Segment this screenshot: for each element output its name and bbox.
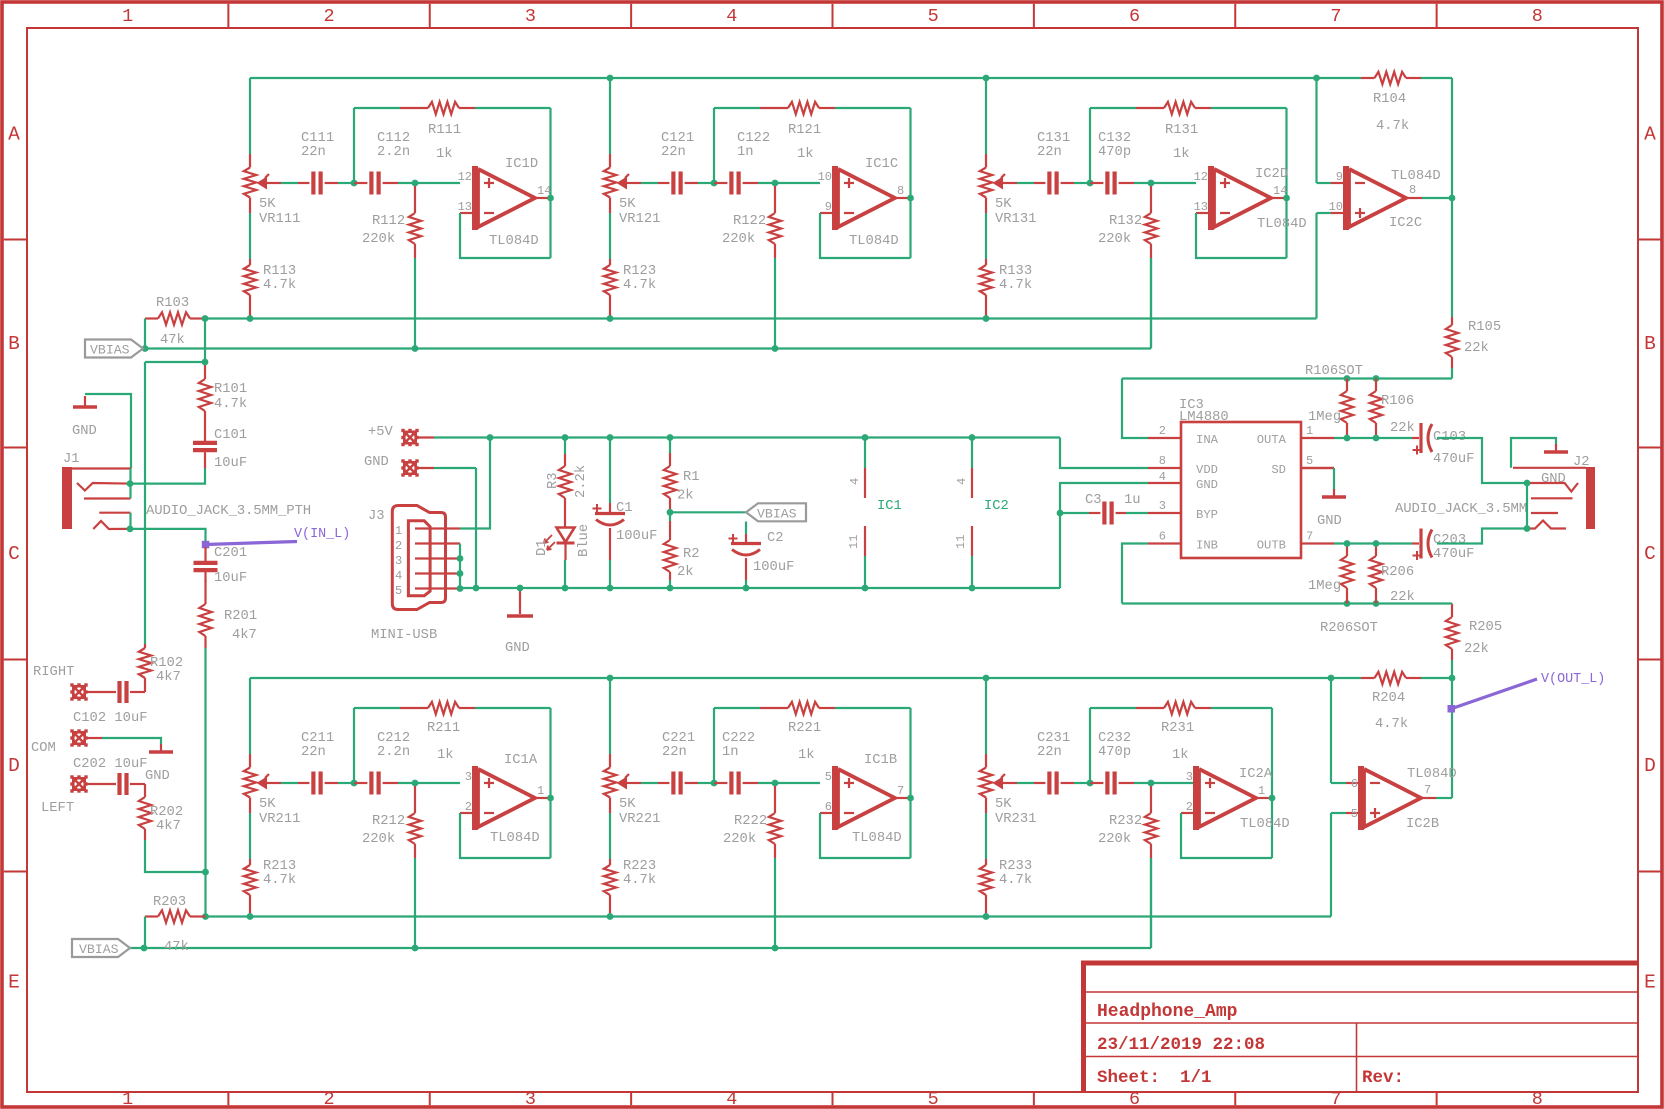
wire GND rail to IC3 GND [1060,483,1148,588]
svg-text:R102: R102 [150,656,183,671]
junction node B [1148,180,1155,187]
svg-text:22k: 22k [1390,589,1415,605]
wire R201 to bottom stages [204,648,206,872]
capacitor C3 [1060,512,1089,514]
wire OUTA net [1334,437,1412,439]
feedback wire up from node A [353,108,355,183]
wire R203 net line [205,915,1331,917]
capacitor C103 [1412,437,1419,439]
svg-text:J3: J3 [368,509,385,524]
svg-text:C231: C231 [1037,731,1070,746]
svg-text:VR121: VR121 [619,212,660,227]
wire INB net [1122,544,1148,604]
svg-text:C203: C203 [1433,533,1466,548]
svg-text:220k: 220k [723,831,756,847]
J2 ring contact [1527,521,1566,529]
svg-text:22n: 22n [1037,745,1062,760]
svg-text:IC1A: IC1A [504,753,538,768]
svg-text:2.2n: 2.2n [377,145,410,160]
svg-text:R204: R204 [1372,691,1405,706]
junction +5V J3 [487,434,494,441]
resistor R111 [400,107,428,109]
junction R213 bottom [247,913,254,920]
junction node A [1087,780,1094,787]
svg-text:23/11/2019 22:08: 23/11/2019 22:08 [1097,1035,1265,1055]
wire inverting feedback loop [460,813,551,858]
junction VBIAS-R103 [142,345,149,352]
svg-text:4.7k: 4.7k [999,277,1032,293]
junction R103 right [202,315,209,322]
svg-text:TL084D: TL084D [852,831,902,846]
svg-text:2k: 2k [677,564,694,580]
svg-text:R132: R132 [1109,214,1142,229]
wire R204 to IC2B node [1421,677,1452,679]
svg-text:1: 1 [122,6,133,27]
connector J2 body [1586,467,1595,529]
svg-text:LEFT: LEFT [41,801,74,816]
svg-text:1Meg: 1Meg [1308,410,1341,425]
op-amp IC1A [460,812,475,814]
junction D1 bottom [562,585,569,592]
svg-text:VR111: VR111 [259,212,300,227]
resistor R232 [1150,786,1152,813]
svg-text:C111: C111 [301,131,334,146]
op-amp output wire [535,797,548,799]
wire COM to ground [86,737,102,739]
svg-text:11: 11 [954,535,968,549]
wire D1 to GND rail [564,560,566,588]
svg-text:220k: 220k [1098,231,1131,247]
resistor R206SOT 1Meg [1346,544,1348,557]
svg-text:IC1D: IC1D [505,157,538,172]
wire node A C221-C222 [698,782,714,784]
resistor R123 [609,259,611,265]
connector J1 body [62,467,72,529]
LED D1 [557,528,575,543]
resistor R106SOT 1Meg [1346,379,1348,392]
svg-text:Headphone_Amp: Headphone_Amp [1097,1002,1237,1022]
junction top rail VR131 [983,75,990,82]
svg-text:R202: R202 [150,805,183,820]
capacitor C122 [714,182,727,184]
op-amp IC2D [1196,212,1211,214]
svg-text:LM4880: LM4880 [1179,410,1229,425]
wire node B to op-amp + [415,782,460,784]
J3 pin 5 [415,587,460,589]
resistor R122 [774,186,776,213]
svg-text:C131: C131 [1037,131,1070,146]
junction GND drop [473,585,480,592]
resistor R101 [204,362,206,379]
junction node A [711,180,718,187]
J3 pin 3 [415,557,460,559]
wire VR131 top rail tap [985,78,987,154]
svg-text:3: 3 [1159,499,1166,513]
svg-text:7: 7 [1330,6,1341,27]
svg-text:5K: 5K [259,197,276,212]
svg-text:5: 5 [1351,807,1358,821]
svg-text:4: 4 [726,1089,737,1109]
junction R203 right [202,913,209,920]
svg-text:C112: C112 [377,131,410,146]
junction op-amp output [907,195,914,202]
title block row lines [1085,991,1638,993]
junction GND symbol [517,585,524,592]
junction R112 bottom [412,345,419,352]
svg-text:1k: 1k [436,146,453,162]
capacitor C1 [609,438,611,504]
svg-text:V(IN_L): V(IN_L) [294,527,350,542]
svg-text:R206SOT: R206SOT [1320,621,1378,636]
svg-text:TL084D: TL084D [490,831,540,846]
svg-text:4: 4 [726,6,737,27]
svg-text:R2: R2 [683,547,700,562]
J1 ring contact [93,521,130,529]
op-amp output wire [535,197,548,199]
resistor R222 [774,786,776,813]
svg-text:1: 1 [395,524,402,538]
wire INA net [1122,379,1148,439]
svg-text:R104: R104 [1373,92,1406,107]
svg-text:IC1B: IC1B [864,753,897,768]
resistor R112 [414,186,416,213]
resistor R121 [760,107,788,109]
IC3 pin 6 INB [1148,542,1181,544]
junction OUTB-R206SOT [1344,540,1351,547]
wire R132 drop to VBIAS rail [1150,258,1152,349]
potentiometer VR211 [249,754,251,768]
svg-text:RIGHT: RIGHT [33,665,74,680]
wire VR121 bottom [609,213,611,259]
svg-text:10uF: 10uF [214,571,247,586]
resistor R211 [400,707,428,709]
resistor R231 [1136,707,1164,709]
svg-text:A: A [1644,123,1656,145]
svg-text:TL084D: TL084D [1391,169,1441,184]
resistor R131 [1136,107,1164,109]
IC2 power pin 11 [971,526,973,556]
svg-text:6: 6 [1159,530,1166,544]
J1 sleeve contact [72,467,131,469]
svg-text:5: 5 [825,770,832,784]
svg-text:A: A [8,123,20,145]
resistor R203 [145,915,158,917]
potentiometer VR231 [985,754,987,768]
ground symbol USB [519,588,521,614]
wire +5V to VDD [1060,438,1148,469]
J1 contact 4 [99,512,130,514]
svg-text:R222: R222 [734,814,767,829]
wire node B [758,782,775,784]
junction op-amp output [547,795,554,802]
svg-text:4: 4 [848,478,862,485]
wire R101 node to left riser [145,361,205,363]
capacitor C212 [354,782,367,784]
svg-text:4k7: 4k7 [156,669,181,685]
svg-text:C121: C121 [661,131,694,146]
resistor R113 [249,259,251,265]
ground at SD pin [1333,489,1335,497]
svg-text:10: 10 [818,170,832,184]
svg-text:14: 14 [1273,184,1287,198]
junction J3 pin4 [457,570,464,577]
wire R104 to IC2C output [1421,77,1452,79]
wire C203 to jack [1437,529,1527,544]
wire IC2B pin5 stub [1331,812,1346,814]
resistor R105 [1451,198,1453,317]
svg-text:GND: GND [145,769,170,784]
svg-text:R231: R231 [1161,721,1194,736]
junction IC2 pwr top [969,434,976,441]
junction C1 top [607,434,614,441]
capacitor C221 [658,782,669,784]
wire VR121 wiper [627,182,641,184]
wire R101 top [204,319,206,363]
resistor R132 [1150,186,1152,213]
junction OUTA-R106 [1373,435,1380,442]
svg-text:R112: R112 [372,214,405,229]
svg-text:9: 9 [825,200,832,214]
wire node B to op-amp + [415,182,460,184]
capacitor C102 [86,691,116,693]
resistor R1 [669,438,671,454]
svg-text:TL084D: TL084D [1407,767,1457,782]
svg-text:4.7k: 4.7k [1375,716,1408,732]
svg-text:VBIAS: VBIAS [90,343,130,358]
junction J3 pin3 [457,555,464,562]
capacitor C111 [298,182,309,184]
svg-text:220k: 220k [722,231,755,247]
svg-text:VDD: VDD [1196,463,1218,477]
capacitor C211 [298,782,309,784]
junction R223 bottom [607,913,614,920]
svg-text:5: 5 [928,6,939,27]
svg-text:220k: 220k [1098,831,1131,847]
feedback wire up from node A [1089,708,1091,783]
IC2 power pin 4 [971,438,973,469]
wire R202 to tie [145,840,206,872]
wire R122 to VBIAS rail [774,258,776,349]
svg-text:C212: C212 [377,731,410,746]
svg-text:VR131: VR131 [995,212,1036,227]
probe V(IN_L) [206,542,298,545]
svg-text:4.7k: 4.7k [1376,118,1409,134]
svg-text:VBIAS: VBIAS [757,506,797,521]
junction C2 bottom [743,585,750,592]
flag VBIAS middle [746,503,806,521]
capacitor C202 [86,783,116,785]
svg-text:12: 12 [1194,170,1208,184]
svg-text:1: 1 [1306,424,1313,438]
svg-text:22n: 22n [1037,145,1062,160]
svg-text:22n: 22n [661,145,686,160]
svg-text:D: D [1644,755,1656,777]
svg-text:IC2: IC2 [984,499,1009,514]
svg-text:7: 7 [1424,783,1431,797]
svg-text:R106: R106 [1381,394,1414,409]
wire R212 to VBIAS rail [414,858,416,948]
wire J1 ring to V(IN_L) [130,529,206,541]
svg-text:1Meg: 1Meg [1308,579,1341,594]
wire inverting feedback loop [460,213,551,258]
test pad COM [72,731,86,745]
wire R222 to VBIAS rail [774,858,776,948]
svg-text:C132: C132 [1098,131,1131,146]
svg-text:5: 5 [395,584,402,598]
junction R122 bottom [772,345,779,352]
svg-text:VR211: VR211 [259,812,300,827]
svg-text:220k: 220k [362,231,395,247]
svg-text:R113: R113 [263,264,296,279]
wire inverting feedback loop [820,213,911,258]
wire J1 sleeve-mid link [129,469,131,499]
junction R106SOT top [1344,375,1351,382]
junction J3 pin5 [457,585,464,592]
svg-text:5K: 5K [259,797,276,812]
svg-text:IC1C: IC1C [865,157,898,172]
svg-text:11: 11 [847,535,861,549]
wire VBIAS rail bottom [130,947,1151,949]
svg-text:R103: R103 [156,296,189,311]
test pad LEFT [72,777,86,791]
wire IC2C output [1406,197,1422,199]
test pad RIGHT [72,685,86,699]
frame row ticks right [1638,239,1663,241]
svg-text:R206: R206 [1381,565,1414,580]
svg-text:22k: 22k [1464,641,1489,657]
svg-text:5K: 5K [995,197,1012,212]
wire VR121 top rail tap [609,78,611,154]
op-amp IC2B [1346,782,1361,784]
wire J3 pin1 to +5V [460,438,490,529]
svg-text:5K: 5K [619,197,636,212]
wire R103 net line [205,317,1317,319]
junction node B [772,180,779,187]
feedback wire to output [1211,707,1272,709]
svg-text:C: C [1644,543,1656,565]
svg-text:AUDIO_JACK_3.5MM_PTH: AUDIO_JACK_3.5MM_PTH [146,503,311,519]
IC3 pin 4 GND [1148,482,1181,484]
potentiometer VR111 [249,154,251,168]
svg-text:R205: R205 [1469,620,1502,635]
capacitor C2 [745,522,747,535]
IC3 pin 1 OUTA [1301,437,1334,439]
svg-text:R122: R122 [733,214,766,229]
wire SD to ground [1301,467,1334,469]
feedback wire up from node A [713,108,715,183]
op-amp IC2A [1181,812,1196,814]
svg-text:R123: R123 [623,264,656,279]
resistor R133 [985,259,987,265]
svg-text:C232: C232 [1098,731,1131,746]
svg-text:1: 1 [122,1089,133,1109]
svg-text:C2: C2 [767,531,784,546]
wire node A C121-C122 [698,182,714,184]
svg-text:4: 4 [955,478,969,485]
junction R2 bottom [667,585,674,592]
svg-text:Rev:: Rev: [1362,1068,1404,1088]
svg-text:1u: 1u [1124,493,1141,508]
wire VR211 wiper [267,782,281,784]
svg-text:J1: J1 [63,452,80,467]
wire VR231 bottom [985,813,987,859]
svg-text:R105: R105 [1468,320,1501,335]
op-amp IC1D [460,212,475,214]
svg-text:7: 7 [897,784,904,798]
svg-text:1n: 1n [737,145,754,160]
svg-text:R201: R201 [224,609,257,624]
wire node B [398,182,415,184]
capacitor C121 [658,182,669,184]
wire R132 to VBIAS rail [1150,258,1152,349]
svg-text:7: 7 [1306,530,1313,544]
J2 sleeve contact [1513,467,1586,469]
J2 tip contact [1527,483,1578,492]
junction IC2 pwr bottom [969,585,976,592]
op-amp output wire [895,197,908,199]
wire down to R203 line [204,872,206,917]
junction R206SOT bottom [1344,600,1351,607]
svg-text:4.7k: 4.7k [214,396,247,412]
resistor R233 [985,859,987,865]
svg-text:B: B [8,333,20,355]
svg-text:6: 6 [1129,1089,1140,1109]
junction J1 tip [127,480,134,487]
wire GND stub [417,467,434,469]
svg-text:1k: 1k [1173,146,1190,162]
IC3 pin 5 SD [1301,467,1334,469]
IC IC3 LM4880 box [1181,422,1301,558]
svg-text:VR221: VR221 [619,812,660,827]
svg-text:4.7k: 4.7k [623,872,656,888]
svg-text:3: 3 [1186,770,1193,784]
svg-text:C202 10uF: C202 10uF [73,757,148,772]
svg-text:1k: 1k [1172,747,1189,763]
svg-text:1: 1 [537,784,544,798]
capacitor C222 [714,782,727,784]
svg-text:6: 6 [1351,777,1358,791]
svg-text:14: 14 [537,184,551,198]
feedback wire up from node A [713,708,715,783]
svg-text:6: 6 [825,800,832,814]
junction R101 node [202,359,209,366]
junction R3 top [562,434,569,441]
svg-text:22k: 22k [1390,420,1415,436]
svg-text:TL084D: TL084D [1257,217,1307,232]
junction IC1 pwr top [862,434,869,441]
svg-text:470uF: 470uF [1433,452,1474,467]
resistor R205 [1451,604,1453,618]
junction R133 bottom [983,315,990,322]
svg-text:10uF: 10uF [214,456,247,471]
svg-text:22n: 22n [301,145,326,160]
junction op-amp output [1283,195,1290,202]
resistor R2 [669,512,671,521]
wire inverting feedback loop [820,813,911,858]
svg-text:GND: GND [505,641,530,656]
junction R206 bottom [1373,600,1380,607]
wire VR111 wiper [267,182,281,184]
junction R113 bottom [247,315,254,322]
svg-text:R101: R101 [214,382,247,397]
wire C103 to jack [1437,438,1527,483]
svg-text:B: B [1644,333,1656,355]
IC3 pin 2 INA [1148,437,1181,439]
resistor R206 22k [1375,544,1377,557]
svg-text:22n: 22n [662,745,687,760]
junction bottom rail IC2B node [1328,675,1335,682]
svg-text:IC1: IC1 [877,499,902,514]
